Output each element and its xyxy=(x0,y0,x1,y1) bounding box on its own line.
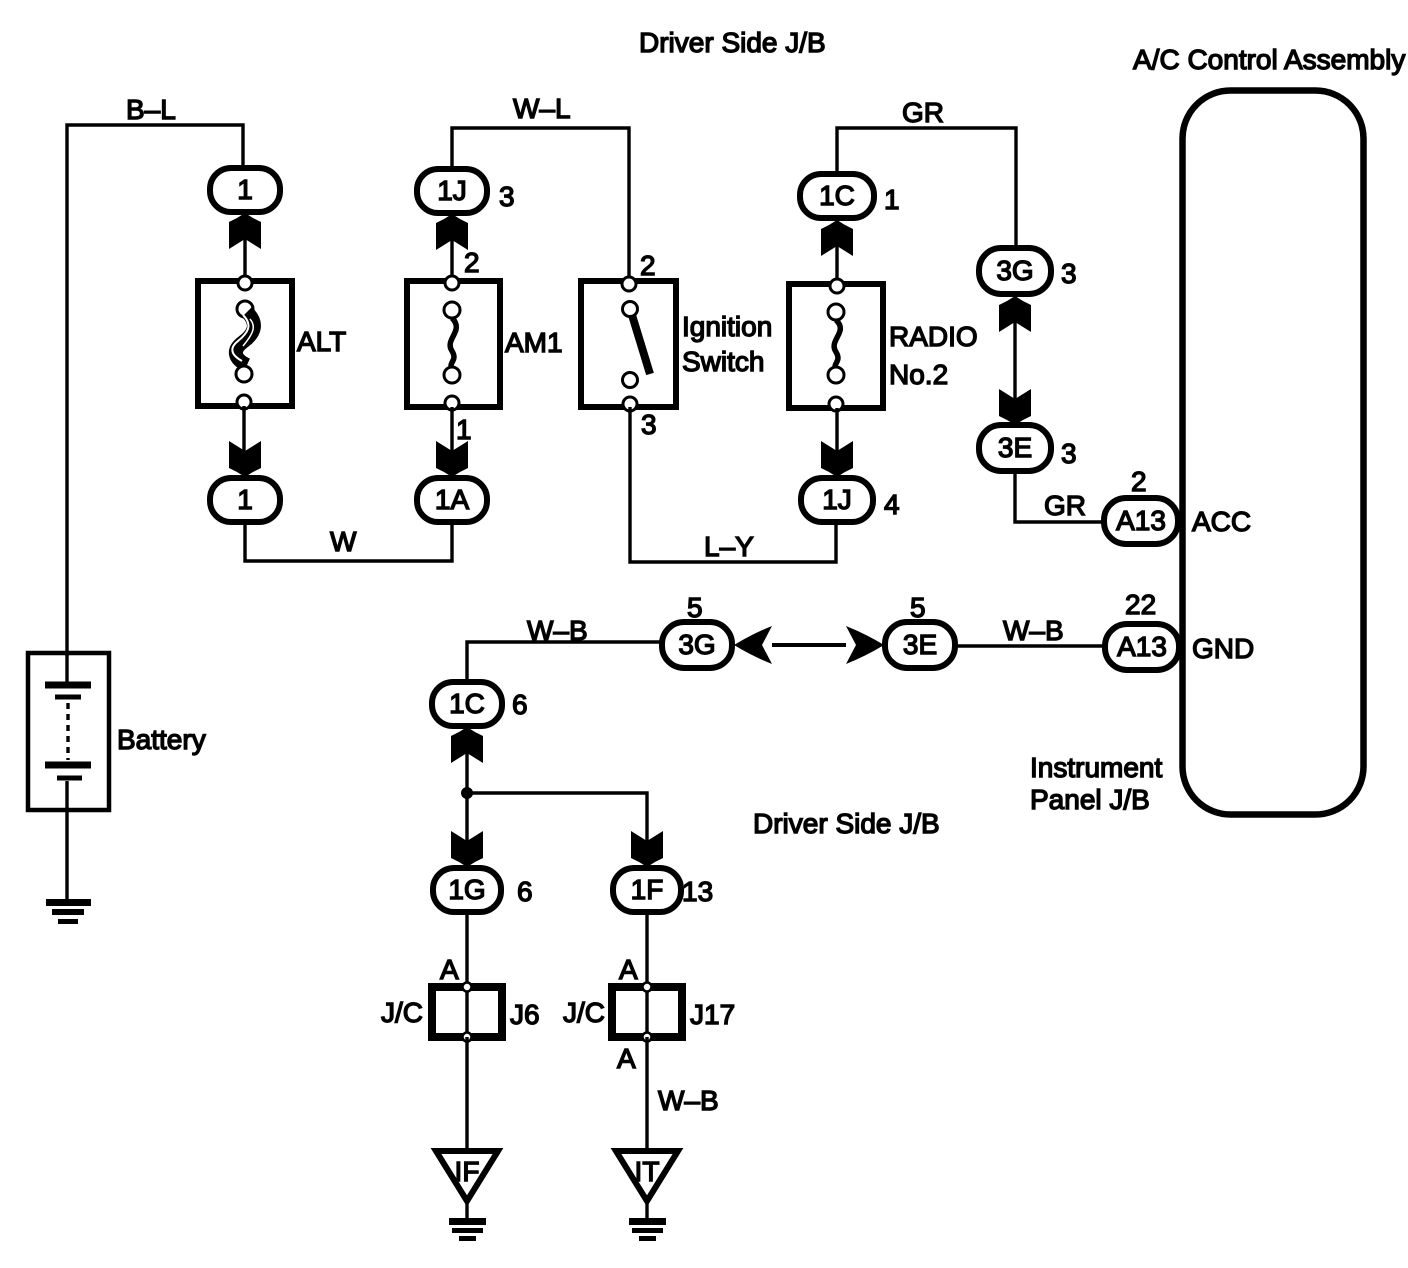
svg-text:B–L: B–L xyxy=(126,94,176,125)
svg-text:2: 2 xyxy=(464,247,480,278)
svg-text:6: 6 xyxy=(517,876,533,907)
svg-text:J/C: J/C xyxy=(563,997,605,1028)
svg-text:Switch: Switch xyxy=(682,346,764,377)
ground symbol IF xyxy=(449,1218,486,1241)
wire triangle IT to ground xyxy=(645,1204,648,1220)
svg-text:Driver Side J/B: Driver Side J/B xyxy=(753,808,940,839)
svg-text:3: 3 xyxy=(499,181,515,212)
svg-text:Ignition: Ignition xyxy=(682,311,772,342)
wire battery to ground xyxy=(65,781,68,901)
ground symbol battery xyxy=(46,899,91,924)
junction connector J6 xyxy=(432,983,502,1042)
svg-text:1C: 1C xyxy=(819,180,855,211)
ground symbol IT xyxy=(629,1218,666,1241)
svg-text:W–B: W–B xyxy=(1003,615,1064,646)
svg-text:A13: A13 xyxy=(1116,505,1166,536)
connector A13 ACC xyxy=(1104,498,1178,544)
wire J6 to ground triangle IF xyxy=(465,1037,468,1150)
svg-text:5: 5 xyxy=(687,592,703,623)
battery dashed center line xyxy=(66,703,69,760)
svg-text:A: A xyxy=(617,1043,636,1074)
label RADIO No.2 xyxy=(889,321,978,390)
arrow left toward 3G (mid) xyxy=(734,626,772,664)
svg-text:1J: 1J xyxy=(822,484,852,515)
wire connector 1 to fuse ALT xyxy=(243,212,246,280)
connector 1A (below AM1) xyxy=(417,478,487,522)
wire junction to connector 1F branch xyxy=(467,793,647,868)
ground triangle IF xyxy=(436,1151,498,1201)
connector 3E (mid) xyxy=(885,622,955,668)
svg-text:A/C Control Assembly: A/C Control Assembly xyxy=(1133,44,1405,75)
svg-text:ACC: ACC xyxy=(1192,506,1251,537)
svg-text:1J: 1J xyxy=(437,175,467,206)
svg-text:Battery: Battery xyxy=(117,724,206,755)
svg-text:1: 1 xyxy=(456,414,472,445)
svg-text:Panel J/B: Panel J/B xyxy=(1030,784,1150,815)
svg-text:W–B: W–B xyxy=(658,1085,719,1116)
svg-text:3G: 3G xyxy=(996,255,1033,286)
arrow up into connector 1C (mid) xyxy=(451,727,483,763)
arrow down into connector 1A xyxy=(436,441,468,477)
wire connector 1J to fuse AM1 xyxy=(450,213,453,281)
A/C control assembly box xyxy=(1183,91,1364,815)
wire fuse ALT to connector 1 (below) xyxy=(242,406,245,478)
arrow up into connector 1J xyxy=(436,214,468,250)
svg-text:ALT: ALT xyxy=(297,326,346,357)
svg-text:1A: 1A xyxy=(435,484,470,515)
svg-text:1: 1 xyxy=(237,174,253,205)
arrow up into connector 1 (ALT) xyxy=(229,213,261,249)
arrow up into connector 1C (radio) xyxy=(821,220,853,256)
wire J17 to ground triangle IT xyxy=(645,1037,648,1150)
junction node xyxy=(461,787,473,799)
svg-text:GR: GR xyxy=(1044,490,1086,521)
wire connector 1F to junction connector J17 xyxy=(645,912,648,984)
battery plate long top xyxy=(45,682,91,689)
battery plate short bottom xyxy=(57,776,82,781)
svg-text:2: 2 xyxy=(1131,466,1147,497)
svg-text:W–B: W–B xyxy=(527,615,588,646)
arrow down into connector 1F xyxy=(631,831,663,867)
arrow down into connector 3E (upper) xyxy=(999,389,1031,425)
ground triangle IT xyxy=(616,1151,678,1201)
connector 1J (above AM1) xyxy=(417,169,487,213)
arrow down into connector 1 (below ALT) xyxy=(229,441,261,477)
svg-text:1G: 1G xyxy=(448,874,485,905)
fuse RADIO No.2 xyxy=(789,279,883,411)
wire triangle IF to ground xyxy=(465,1204,468,1220)
svg-text:13: 13 xyxy=(682,876,713,907)
svg-text:4: 4 xyxy=(884,489,900,520)
battery internal wire xyxy=(65,653,68,683)
svg-text:L–Y: L–Y xyxy=(704,531,754,562)
ignition switch box xyxy=(581,277,676,411)
svg-text:RADIO: RADIO xyxy=(889,321,978,352)
battery plate short top xyxy=(55,695,81,700)
wire W-L from connector 1J to ignition switch xyxy=(452,128,629,282)
arrow right toward 3E (mid) xyxy=(846,626,884,664)
arrow down into connector 1J (radio) xyxy=(821,441,853,477)
connector A13 GND xyxy=(1105,624,1179,670)
fuse AM1 xyxy=(407,276,500,410)
battery plate long bottom xyxy=(45,762,91,769)
connector 3E (upper) xyxy=(979,425,1051,471)
connector 1F xyxy=(613,868,681,912)
connector 1 (below ALT) xyxy=(210,478,280,522)
svg-text:1C: 1C xyxy=(449,688,485,719)
svg-text:IF: IF xyxy=(455,1156,480,1187)
connector 1G xyxy=(433,868,501,912)
wire W-B connector 1C (mid) to connector 3G (mid) xyxy=(467,642,662,684)
wire connector 1C (mid) down through junction to 1G xyxy=(465,726,468,868)
svg-text:3E: 3E xyxy=(903,629,937,660)
wire GR connector 1C to connector 3G xyxy=(837,128,1016,250)
svg-text:1: 1 xyxy=(884,184,900,215)
svg-text:1: 1 xyxy=(237,484,253,515)
connector 3G (upper) xyxy=(979,248,1051,294)
svg-text:A: A xyxy=(440,954,459,985)
svg-text:J6: J6 xyxy=(510,999,540,1030)
svg-text:5: 5 xyxy=(910,592,926,623)
svg-text:1F: 1F xyxy=(631,874,664,905)
svg-text:Driver Side J/B: Driver Side J/B xyxy=(639,27,826,58)
wire W-B connector 3E (mid) to A13 GND xyxy=(955,644,1106,647)
svg-text:AM1: AM1 xyxy=(505,327,563,358)
svg-text:J/C: J/C xyxy=(381,997,423,1028)
arrow up into connector 3G (upper) xyxy=(999,296,1031,332)
svg-text:GR: GR xyxy=(902,97,944,128)
svg-text:3G: 3G xyxy=(678,629,715,660)
svg-text:2: 2 xyxy=(640,250,656,281)
connector 1J (below RADIO No.2) xyxy=(801,478,873,522)
connector 3G (mid) xyxy=(662,622,732,668)
label Ignition Switch xyxy=(682,311,772,377)
svg-text:Instrument: Instrument xyxy=(1030,752,1162,783)
svg-text:A13: A13 xyxy=(1117,631,1167,662)
svg-text:W: W xyxy=(330,526,357,557)
wire between double arrows xyxy=(772,643,846,647)
svg-text:22: 22 xyxy=(1125,589,1156,620)
svg-text:W–L: W–L xyxy=(513,93,571,124)
arrow down into connector 1G xyxy=(451,831,483,867)
svg-text:3E: 3E xyxy=(998,432,1032,463)
svg-text:3: 3 xyxy=(641,409,657,440)
wire fuse AM1 to connector 1A xyxy=(450,407,453,478)
svg-text:GND: GND xyxy=(1192,633,1254,664)
svg-text:6: 6 xyxy=(512,689,528,720)
connector 1C (mid) xyxy=(432,682,502,726)
svg-text:3: 3 xyxy=(1061,258,1077,289)
svg-text:J17: J17 xyxy=(690,999,735,1030)
wire battery B-L up to connector 1 xyxy=(67,125,243,656)
label Instrument Panel J/B xyxy=(1030,752,1162,815)
connector 1 (above ALT) xyxy=(210,168,280,212)
wire connector 3G to connector 3E (upper) xyxy=(1013,300,1016,423)
wire connector 1G to junction connector J6 xyxy=(465,912,468,984)
connector 1C (above RADIO No.2) xyxy=(800,174,874,218)
battery box xyxy=(28,653,109,810)
wire L-Y ignition switch to connector 1J (radio) xyxy=(630,407,836,562)
svg-text:No.2: No.2 xyxy=(889,359,948,390)
wire GR connector 3E to A13 ACC xyxy=(1015,471,1106,522)
svg-text:A: A xyxy=(619,954,638,985)
fuse ALT xyxy=(198,276,292,409)
wire W connector 1 to connector 1A xyxy=(245,522,452,561)
wire connector 1C to fuse RADIO xyxy=(835,219,838,284)
wire fuse RADIO to connector 1J (radio) xyxy=(835,408,838,478)
junction connector J17 xyxy=(612,983,682,1042)
svg-text:3: 3 xyxy=(1061,438,1077,469)
svg-text:IT: IT xyxy=(635,1156,660,1187)
